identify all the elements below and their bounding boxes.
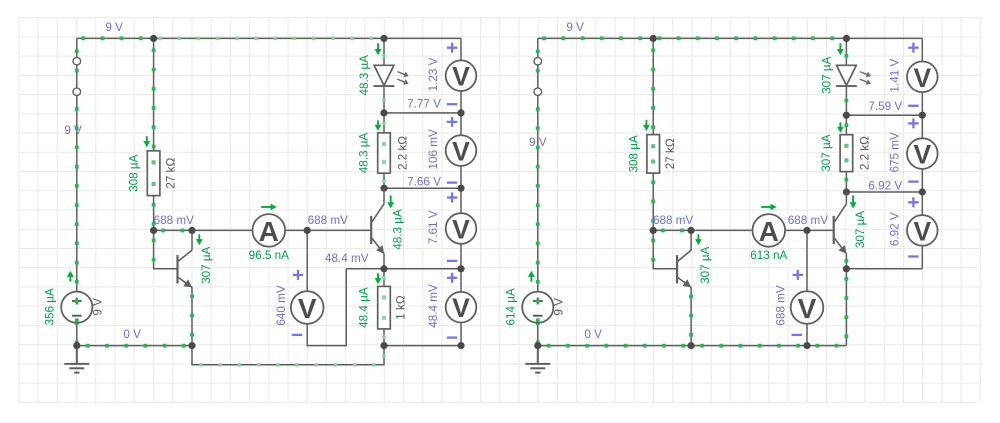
battery V-source 9V (right) — [522, 292, 553, 323]
top rail node 27k (right) — [650, 35, 657, 42]
battery current arrow (right) — [530, 276, 532, 282]
ammeter (left) — [252, 214, 285, 247]
svg-text:9 V: 9 V — [92, 298, 105, 316]
wire chain top to LED (left) — [382, 38, 386, 65]
switch terminal upper (left) — [73, 57, 81, 65]
rail1 node meter (left) — [457, 109, 464, 116]
svg-text:9 V: 9 V — [566, 21, 584, 34]
svg-text:675 mV: 675 mV — [888, 132, 901, 172]
resistor 2.2k current arrow (left) — [377, 120, 379, 125]
svg-text:688 mV: 688 mV — [788, 214, 828, 227]
resistor 27k current arrow (right) — [645, 120, 647, 126]
svg-text:9 V: 9 V — [553, 298, 566, 316]
wire rail2 to meters (left) — [384, 187, 461, 189]
wire base rail through ammeter (right) — [691, 229, 807, 231]
svg-text:307 µA: 307 µA — [699, 246, 712, 283]
wire battery to ground node (right) — [536, 321, 540, 345]
mid voltmeter plus (left) — [293, 270, 303, 280]
transistor Q2 (left) — [370, 216, 372, 244]
wire meter column (right) — [921, 38, 923, 268]
voltmeter top (right) — [907, 62, 938, 93]
resistor 27k (right) — [647, 135, 660, 174]
transistor Q1 current arrow (left) — [198, 234, 200, 240]
bottom rail node chain (left) — [380, 342, 387, 349]
wire emitter rail (right) — [846, 268, 922, 270]
rail2 node chain (right) — [843, 188, 850, 195]
svg-text:688 mV: 688 mV — [653, 214, 693, 227]
transistor Q2 current arrow (right) — [852, 196, 854, 204]
svg-text:V: V — [452, 137, 470, 167]
svg-text:308 µA: 308 µA — [627, 135, 640, 172]
svg-text:48.4 µA: 48.4 µA — [358, 287, 371, 328]
wire top rail (right) — [538, 36, 923, 40]
transistor Q1 (left) — [176, 255, 178, 283]
svg-text:9 V: 9 V — [64, 124, 82, 137]
voltmeter second (left) — [446, 135, 477, 166]
wire rail bottom to meter (left) — [384, 345, 461, 347]
ground (right) — [525, 346, 550, 373]
top rail node 27k (left) — [150, 35, 157, 42]
voltmeter fourth plus (left) — [447, 273, 457, 283]
ground (left) — [64, 346, 89, 373]
wire 27k branch upper (left) — [152, 38, 156, 150]
base node mid (right) — [803, 227, 810, 234]
svg-text:1.41 V: 1.41 V — [888, 59, 901, 93]
LED (right) — [837, 65, 857, 85]
voltmeter third plus (left) — [447, 193, 457, 203]
emitter node chain (left) — [380, 265, 387, 272]
base node left (right) — [650, 227, 657, 234]
mid voltmeter plus (right) — [793, 270, 803, 280]
mid voltmeter minus (right) — [792, 334, 802, 336]
svg-text:1 kΩ: 1 kΩ — [394, 295, 407, 320]
mid voltmeter minus (left) — [292, 334, 302, 336]
wire Q2 base (right) — [807, 229, 834, 231]
svg-text:V: V — [452, 62, 470, 92]
wire LED to rail1 (right) — [844, 87, 848, 116]
svg-text:9 V: 9 V — [529, 136, 547, 149]
svg-text:48.3 µA: 48.3 µA — [358, 133, 371, 174]
resistor 1k current arrow (left) — [377, 273, 379, 279]
voltmeter second plus (right) — [908, 118, 918, 128]
wire mid voltmeter bottom (right) — [806, 324, 808, 346]
bottom rail node meter (left) — [457, 342, 464, 349]
wire Q1 base (right) — [651, 230, 677, 268]
wire Q1 base (left) — [152, 230, 178, 268]
voltmeter second (right) — [907, 138, 938, 169]
wire base rail through ammeter (left) — [192, 229, 307, 231]
wire rail1 to meters (right) — [846, 114, 922, 116]
wire lower return rail (left) — [192, 346, 386, 367]
ammeter (right) — [753, 214, 786, 247]
svg-text:356 µA: 356 µA — [44, 288, 57, 325]
svg-text:7.66 V: 7.66 V — [407, 176, 441, 189]
wire chain top to LED (right) — [844, 38, 848, 65]
svg-text:688 mV: 688 mV — [308, 214, 348, 227]
voltmeter fourth minus (left) — [447, 336, 457, 338]
svg-text:9 V: 9 V — [105, 21, 123, 34]
resistor 27k current arrow (left) — [146, 136, 148, 142]
wire 2.2k to rail2 (left) — [382, 173, 386, 188]
wire 1k to bottom rail (left) — [382, 329, 386, 346]
svg-text:7.61 V: 7.61 V — [427, 210, 440, 244]
svg-text:48.3 µA: 48.3 µA — [392, 209, 405, 250]
svg-text:308 µA: 308 µA — [128, 154, 141, 191]
wire emitter rail (left) — [346, 268, 461, 270]
wire emitter node to 1k (left) — [382, 269, 386, 287]
svg-text:27 kΩ: 27 kΩ — [664, 138, 677, 169]
wire battery to ground node (left) — [75, 321, 79, 345]
top rail node LED (left) — [380, 35, 387, 42]
wire LED to rail1 (left) — [382, 87, 386, 113]
svg-text:2.2 kΩ: 2.2 kΩ — [396, 136, 409, 170]
battery V-source 9V (left) — [61, 292, 92, 323]
voltmeter top minus (left) — [447, 103, 457, 105]
svg-text:V: V — [913, 140, 931, 170]
top rail node LED (right) — [843, 35, 850, 42]
svg-text:V: V — [452, 215, 470, 245]
mid voltmeter (right) — [791, 291, 824, 324]
transistor Q2 current arrow (left) — [390, 196, 392, 204]
svg-text:6.92 V: 6.92 V — [868, 180, 902, 193]
voltmeter top plus (left) — [447, 43, 457, 53]
wire top rail (left) — [77, 36, 461, 40]
ground node (right) — [534, 342, 541, 349]
svg-text:614 µA: 614 µA — [505, 288, 518, 325]
switch terminal lower (right) — [534, 88, 542, 96]
wire base rail left segment (left) — [154, 229, 192, 233]
svg-text:V: V — [913, 63, 931, 93]
voltmeter second minus (left) — [447, 181, 457, 183]
wire mid voltmeter top (left) — [306, 230, 308, 291]
svg-text:V: V — [452, 293, 470, 323]
voltmeter second plus (left) — [447, 117, 457, 127]
svg-text:27 kΩ: 27 kΩ — [164, 158, 177, 189]
wire 2.2k to rail2 (right) — [844, 172, 848, 192]
svg-text:307 µA: 307 µA — [820, 56, 833, 93]
resistor 2.2k (right) — [840, 135, 853, 172]
voltmeter third plus (right) — [908, 197, 918, 207]
wire meter column (left) — [460, 38, 462, 345]
svg-text:688 mV: 688 mV — [154, 214, 194, 227]
ammeter current arrow (right) — [761, 206, 771, 208]
voltmeter top plus (right) — [908, 43, 918, 53]
svg-text:307 µA: 307 µA — [854, 211, 867, 248]
rail2 node meter (right) — [919, 188, 926, 195]
base node mid (left) — [304, 227, 311, 234]
svg-text:V: V — [298, 293, 317, 324]
resistor 2.2k (left) — [378, 133, 391, 173]
transistor Q1 current arrow (right) — [697, 234, 699, 240]
voltmeter third (left) — [446, 213, 477, 244]
resistor 27k (left) — [147, 151, 160, 196]
wire mid voltmeter top (right) — [806, 230, 808, 291]
Q1 collector node (right) — [688, 227, 695, 234]
wire rail1 to 2.2k (right) — [844, 115, 848, 135]
svg-text:640 mV: 640 mV — [275, 285, 288, 325]
resistor 2.2k current arrow (right) — [839, 122, 841, 127]
voltmeter top minus (right) — [908, 105, 918, 107]
wire left vertical (left) — [75, 38, 79, 292]
mid voltmeter bottom node (right) — [803, 342, 810, 349]
wire 27k branch upper (right) — [651, 38, 655, 134]
svg-text:A: A — [759, 216, 779, 247]
rail2 node chain (left) — [380, 185, 387, 192]
wire bottom rail (right) — [538, 344, 691, 348]
svg-text:V: V — [798, 293, 817, 324]
transistor Q2 (right) — [833, 216, 835, 244]
wire 27k branch lower (right) — [651, 173, 655, 230]
svg-text:A: A — [259, 216, 279, 247]
rail1 node chain (right) — [843, 112, 850, 119]
voltmeter second minus (right) — [908, 180, 918, 182]
emitter node meter (left) — [457, 265, 464, 272]
wire emitter node to bottom rail (right) — [844, 269, 848, 346]
svg-text:V: V — [913, 216, 931, 246]
Q1 collector node (left) — [188, 227, 195, 234]
resistor 1k (left) — [378, 286, 391, 329]
ammeter current arrow (left) — [261, 206, 271, 208]
Q1 emitter bottom node (left) — [188, 342, 195, 349]
svg-text:96.5 nA: 96.5 nA — [249, 249, 289, 262]
voltmeter third minus (left) — [447, 260, 457, 262]
svg-text:48.4 mV: 48.4 mV — [427, 284, 440, 328]
voltmeter top (left) — [446, 60, 477, 91]
rail1 node chain (left) — [380, 109, 387, 116]
ground node (left) — [73, 342, 80, 349]
rail1 node meter (right) — [919, 112, 926, 119]
wire rail2 to meters (right) — [846, 191, 922, 193]
voltmeter third (right) — [907, 215, 938, 246]
svg-text:307 µA: 307 µA — [820, 134, 833, 171]
wire rail1 to 2.2k (left) — [382, 113, 386, 133]
svg-text:48.4 mV: 48.4 mV — [325, 252, 369, 265]
wire rail1 to meters (left) — [384, 112, 461, 114]
svg-text:2.2 kΩ: 2.2 kΩ — [859, 136, 872, 170]
wire Q2 base (left) — [307, 229, 371, 231]
rail2 node meter (left) — [457, 185, 464, 192]
wire mid voltmeter bottom jog (left) — [307, 269, 346, 346]
svg-text:106 mV: 106 mV — [427, 129, 440, 169]
wire bottom rail (left) — [77, 344, 192, 348]
switch terminal lower (left) — [73, 88, 81, 96]
svg-text:0 V: 0 V — [584, 328, 602, 341]
svg-text:307 µA: 307 µA — [200, 246, 213, 283]
svg-text:6.92 V: 6.92 V — [888, 212, 901, 246]
emitter node chain (right) — [843, 265, 850, 272]
LED (left) — [374, 65, 394, 85]
battery current arrow (left) — [69, 276, 71, 282]
wire bottom rail to emitter column (right) — [691, 344, 846, 348]
wire left vertical (right) — [536, 38, 540, 292]
switch terminal upper (right) — [534, 57, 542, 65]
transistor Q1 (right) — [676, 255, 678, 283]
voltmeter fourth (left) — [446, 292, 477, 323]
Q1 emitter bottom node (right) — [688, 342, 695, 349]
wire base rail left segment (right) — [653, 229, 691, 233]
svg-text:0 V: 0 V — [123, 328, 141, 341]
svg-text:1.23 V: 1.23 V — [427, 57, 440, 91]
svg-text:7.77 V: 7.77 V — [407, 98, 441, 111]
svg-text:7.59 V: 7.59 V — [868, 100, 902, 113]
wire 27k branch lower (left) — [152, 196, 156, 231]
LED current arrow (left) — [377, 43, 379, 50]
svg-text:688 mV: 688 mV — [775, 285, 788, 325]
LED current arrow (right) — [839, 43, 841, 50]
svg-text:48.3 µA: 48.3 µA — [358, 55, 371, 96]
base node left (left) — [150, 227, 157, 234]
mid voltmeter (left) — [291, 291, 324, 324]
voltmeter third minus (right) — [908, 255, 918, 257]
svg-text:613 nA: 613 nA — [750, 249, 787, 262]
